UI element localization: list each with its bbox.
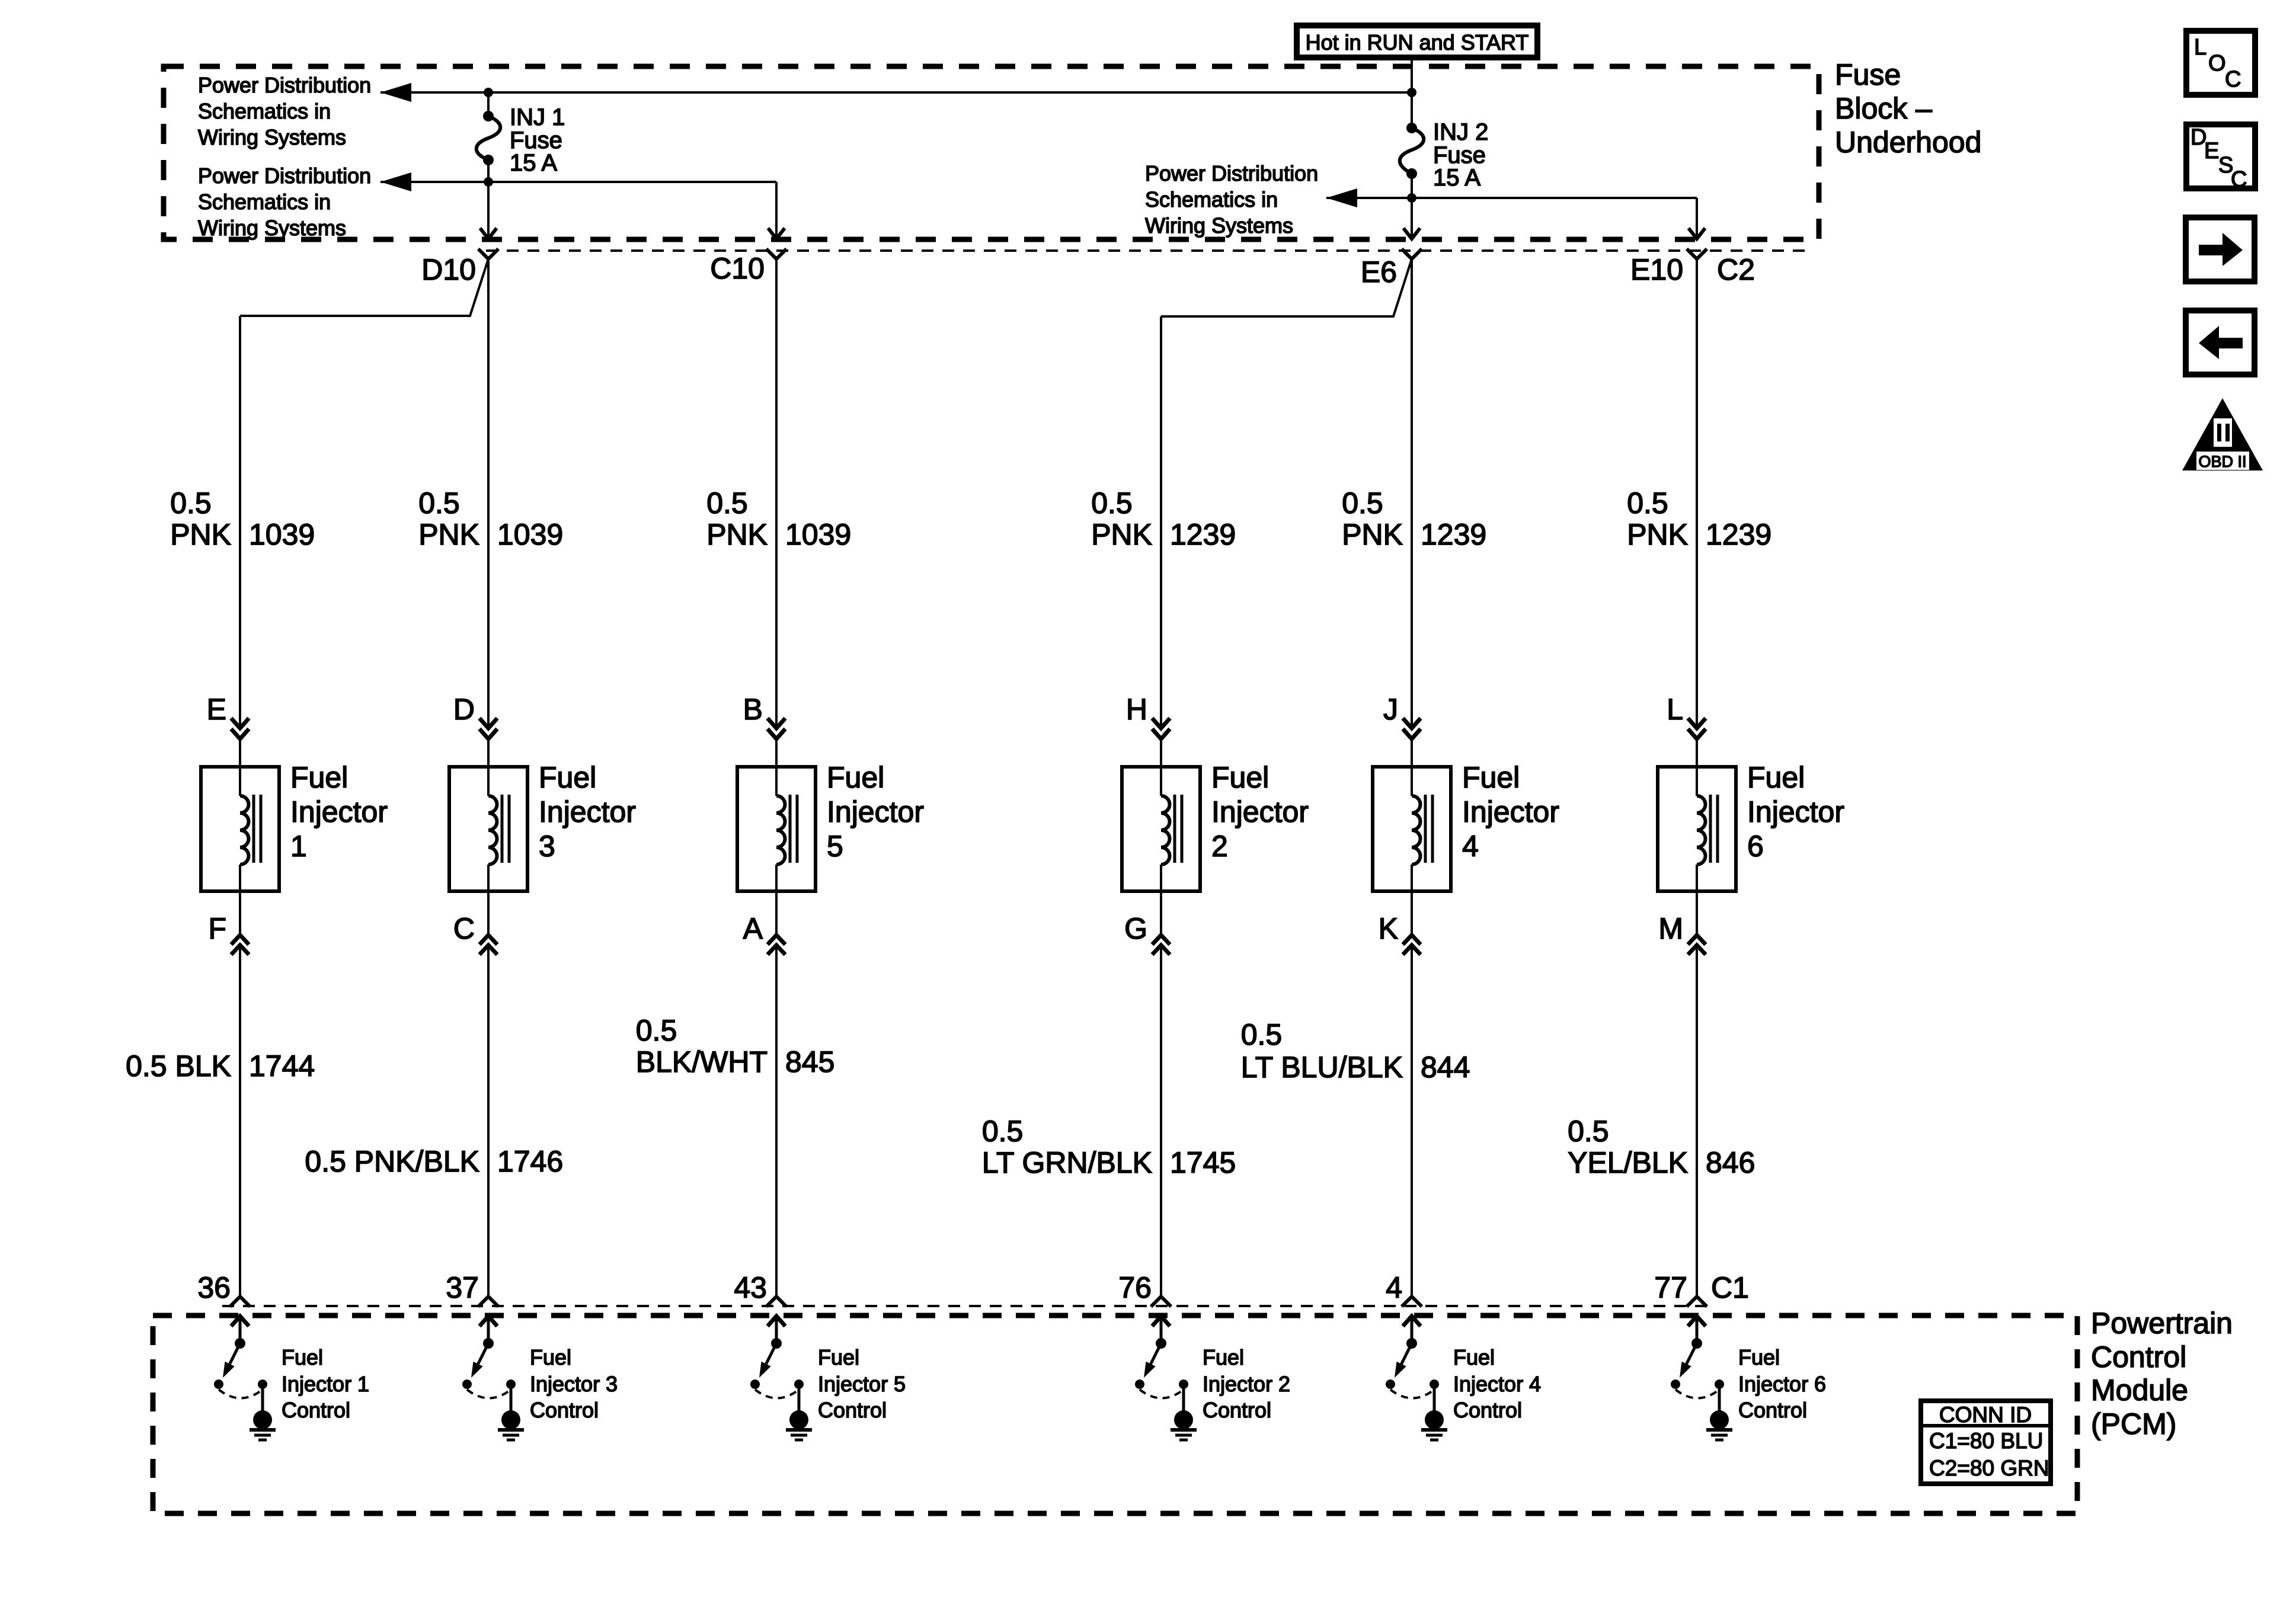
svg-text:Injector: Injector — [539, 795, 636, 828]
connector chevrons at pin H — [1152, 718, 1170, 739]
svg-text:Injector: Injector — [827, 795, 924, 828]
connector terminal PCM pin 36 — [230, 1297, 250, 1307]
svg-text:E: E — [2204, 139, 2219, 164]
svg-text:Fuel: Fuel — [290, 761, 348, 794]
pin B label — [743, 693, 763, 726]
svg-text:Fuel: Fuel — [1747, 761, 1805, 794]
wire pin J to injector — [1411, 739, 1413, 767]
fuel injector 6 (solenoid) — [1658, 767, 1736, 891]
svg-text:Underhood: Underhood — [1835, 126, 1981, 159]
connector chevrons at pin M — [1688, 935, 1706, 955]
svg-text:0.5: 0.5 — [982, 1115, 1024, 1148]
ground (driver 2) — [1171, 1410, 1197, 1440]
label 0.5 PNK 1239 — [1091, 486, 1236, 551]
wire pin K to PCM pin 4 — [1411, 945, 1413, 1297]
title box "Hot in RUN and START" — [1297, 25, 1537, 57]
svg-text:Control: Control — [1203, 1398, 1271, 1422]
svg-text:E6: E6 — [1361, 255, 1397, 289]
label 0.5 BLK/WHT 845 — [636, 1014, 835, 1078]
svg-text:C: C — [2231, 167, 2247, 192]
svg-text:PNK: PNK — [706, 518, 768, 551]
arrow to Power Distribution (left 2) — [380, 172, 411, 191]
connector chevrons at pin A — [768, 935, 785, 955]
svg-text:37: 37 — [446, 1271, 479, 1304]
icon left-arrow box — [2186, 311, 2255, 375]
wire pin E to injector — [239, 739, 241, 767]
label Fuse Block - Underhood — [1835, 58, 1981, 159]
connector terminal D10 — [478, 249, 498, 259]
svg-text:Injector 6: Injector 6 — [1738, 1372, 1826, 1396]
svg-text:0.5 PNK/BLK: 0.5 PNK/BLK — [305, 1145, 479, 1178]
svg-text:36: 36 — [197, 1271, 231, 1304]
label Fuel Injector 1 — [290, 761, 388, 863]
label C10 — [710, 252, 765, 285]
svg-text:B: B — [743, 693, 763, 726]
wire pin H to injector — [1160, 739, 1162, 767]
wire injector 5 low side — [775, 891, 778, 935]
svg-text:K: K — [1379, 912, 1398, 945]
svg-text:Power Distribution: Power Distribution — [1145, 161, 1318, 185]
label INJ 2 Fuse 15 A — [1433, 119, 1488, 191]
connector chevrons at pin C — [479, 935, 497, 955]
fuel injector 5 (solenoid) — [737, 767, 816, 891]
label 0.5 PNK 1039 — [706, 486, 851, 551]
svg-text:6: 6 — [1747, 830, 1764, 863]
node junction fuse1 bottom — [484, 177, 493, 187]
svg-text:Injector 1: Injector 1 — [282, 1372, 369, 1396]
pin H label — [1126, 693, 1147, 726]
svg-text:D10: D10 — [421, 253, 476, 286]
wire second bus left (fuse1 output) — [380, 181, 776, 183]
svg-text:15 A: 15 A — [510, 150, 557, 176]
label Powertrain Control Module (PCM) — [2091, 1307, 2233, 1441]
label Fuel Injector 3 — [539, 761, 636, 863]
svg-text:3: 3 — [539, 830, 555, 863]
svg-text:Fuel: Fuel — [1203, 1345, 1244, 1369]
svg-text:PNK: PNK — [1342, 518, 1403, 551]
connector chevrons at pin F — [231, 935, 249, 955]
fuel injector 3 (solenoid) — [449, 767, 527, 891]
svg-text:Schematics in: Schematics in — [198, 190, 331, 214]
label Power Distribution Schematics in Wiring Systems (1) — [198, 73, 371, 149]
svg-text:G: G — [1124, 912, 1147, 945]
svg-text:Hot in RUN and START: Hot in RUN and START — [1306, 30, 1529, 55]
PCM pin number 36 — [197, 1271, 231, 1304]
svg-text:77: 77 — [1654, 1271, 1687, 1304]
svg-text:Fuse: Fuse — [1835, 58, 1901, 91]
svg-text:1: 1 — [290, 830, 307, 863]
wire pin B to injector — [775, 739, 778, 767]
connector terminal E10 — [1687, 249, 1707, 259]
svg-text:Fuel: Fuel — [1211, 761, 1269, 794]
label C2 — [1717, 253, 1755, 286]
node junction hot feed — [1407, 88, 1416, 97]
connector chevrons at pin K — [1403, 935, 1421, 955]
wire injector 1 low side — [239, 891, 241, 935]
svg-text:J: J — [1383, 693, 1398, 726]
label Fuel Injector 3 Control — [530, 1345, 618, 1422]
svg-text:Wiring Systems: Wiring Systems — [1145, 213, 1293, 238]
icon right-arrow box — [2186, 217, 2255, 281]
label INJ 1 Fuse 15 A — [510, 104, 565, 176]
svg-text:4: 4 — [1386, 1271, 1402, 1304]
wire pin G to PCM pin 76 — [1160, 945, 1162, 1297]
arrowhead into connector D10 — [480, 228, 497, 239]
svg-text:2: 2 — [1211, 830, 1228, 863]
svg-text:C1: C1 — [1711, 1271, 1749, 1304]
svg-text:Module: Module — [2091, 1374, 2188, 1407]
svg-text:Injector 2: Injector 2 — [1203, 1372, 1290, 1396]
svg-text:0.5: 0.5 — [636, 1014, 677, 1047]
svg-text:0.5: 0.5 — [1342, 486, 1383, 520]
label Fuel Injector 6 Control — [1738, 1345, 1826, 1422]
wire circuit 1239 down to injector 4 — [1411, 259, 1413, 728]
svg-text:L: L — [2194, 35, 2207, 60]
svg-text:1239: 1239 — [1421, 518, 1486, 551]
label 0.5 LT GRN/BLK 1745 — [982, 1115, 1236, 1179]
svg-text:Fuel: Fuel — [1453, 1345, 1495, 1369]
svg-text:Injector 4: Injector 4 — [1453, 1372, 1541, 1396]
connector terminal PCM pin 4 — [1402, 1297, 1422, 1307]
svg-text:Schematics in: Schematics in — [1145, 187, 1278, 212]
label Fuel Injector 2 — [1211, 761, 1309, 863]
driver switch for fuel injector 3 — [462, 1316, 516, 1411]
label E10 — [1630, 253, 1683, 286]
svg-text:1039: 1039 — [497, 518, 563, 551]
label C1 (PCM connector) — [1711, 1271, 1749, 1304]
wire jog from D10 to injector 1 branch — [240, 259, 488, 316]
svg-text:845: 845 — [785, 1045, 834, 1078]
wire from Hot in RUN feed down to bus — [1411, 57, 1413, 92]
wire second bus right (fuse2 output) — [1326, 197, 1697, 199]
svg-text:1745: 1745 — [1170, 1146, 1236, 1179]
wire pin M to PCM pin 77 — [1696, 945, 1698, 1297]
ground (driver 3) — [498, 1410, 524, 1440]
svg-text:1744: 1744 — [249, 1049, 315, 1083]
label D10 — [421, 253, 476, 286]
label Power Distribution Schematics in Wiring Systems (2) — [198, 164, 371, 240]
wire injector 3 low side — [487, 891, 490, 935]
PCM dashed enclosure — [153, 1315, 2077, 1513]
wire drop to C10 — [775, 182, 778, 239]
wire circuit 1039 down to injector 5 — [775, 259, 778, 728]
driver switch for fuel injector 5 — [750, 1316, 804, 1411]
svg-text:0.5: 0.5 — [1241, 1018, 1283, 1051]
svg-text:E: E — [207, 693, 226, 726]
svg-text:F: F — [208, 912, 226, 945]
svg-text:Fuel: Fuel — [1462, 761, 1520, 794]
svg-text:15 A: 15 A — [1433, 165, 1480, 191]
PCM pin number 43 — [734, 1271, 767, 1304]
PCM pin number 77 — [1654, 1271, 1687, 1304]
connector terminal PCM pin 37 — [478, 1297, 498, 1307]
svg-text:PNK: PNK — [1091, 518, 1152, 551]
connector interface dashed line (PCM) — [222, 1305, 1710, 1307]
driver switch for fuel injector 4 — [1386, 1316, 1439, 1411]
svg-text:PNK: PNK — [1627, 518, 1688, 551]
label Fuel Injector 1 Control — [282, 1345, 369, 1422]
svg-text:INJ 1: INJ 1 — [510, 104, 565, 130]
PCM pin number 4 — [1386, 1271, 1402, 1304]
pin C label — [453, 912, 475, 945]
svg-text:Injector 5: Injector 5 — [818, 1372, 906, 1396]
icon OBD II triangle — [2182, 398, 2263, 470]
label 0.5 PNK 1039 — [170, 486, 315, 551]
icon LOC box — [2186, 31, 2255, 95]
fuse INJ 1 15 A — [477, 92, 501, 182]
svg-text:1039: 1039 — [249, 518, 315, 551]
label 0.5 PNK 1239 — [1627, 486, 1771, 551]
connector terminal PCM pin 76 — [1151, 1297, 1171, 1307]
fuel injector 1 (solenoid) — [201, 767, 279, 891]
svg-text:0.5: 0.5 — [1627, 486, 1668, 520]
connector chevrons at pin G — [1152, 935, 1170, 955]
ground (driver 5) — [786, 1410, 812, 1440]
node junction fuse2 bottom — [1407, 193, 1416, 203]
label 0.5 PNK 1039 — [418, 486, 563, 551]
svg-text:0.5 BLK: 0.5 BLK — [126, 1049, 231, 1083]
wire top bus B+ — [380, 91, 1412, 94]
label 0.5 BLK 1744 — [126, 1049, 315, 1083]
svg-text:1239: 1239 — [1170, 518, 1236, 551]
wire circuit 1239 down to injector 6 — [1696, 259, 1698, 728]
svg-text:Injector 3: Injector 3 — [530, 1372, 618, 1396]
svg-text:Control: Control — [818, 1398, 887, 1422]
connector chevrons at pin L — [1688, 718, 1706, 739]
svg-text:Control: Control — [530, 1398, 599, 1422]
label Fuel Injector 5 Control — [818, 1345, 906, 1422]
svg-text:C: C — [2225, 67, 2241, 92]
wire pin D to injector — [487, 739, 490, 767]
svg-text:C10: C10 — [710, 252, 765, 285]
arrowhead into connector E10 — [1689, 228, 1705, 239]
pin L label — [1667, 693, 1683, 726]
label 0.5 PNK/BLK 1746 — [305, 1145, 563, 1178]
svg-text:43: 43 — [734, 1271, 767, 1304]
svg-text:Fuel: Fuel — [539, 761, 596, 794]
svg-text:INJ 2: INJ 2 — [1433, 119, 1488, 145]
svg-text:(PCM): (PCM) — [2091, 1407, 2176, 1441]
connector terminal PCM pin 43 — [766, 1297, 786, 1307]
svg-text:0.5: 0.5 — [706, 486, 748, 520]
svg-text:LT GRN/BLK: LT GRN/BLK — [982, 1146, 1152, 1179]
ground (driver 6) — [1706, 1410, 1732, 1440]
svg-text:C2=80 GRN: C2=80 GRN — [1929, 1456, 2049, 1480]
wire circuit 1039 down to injector 3 — [487, 259, 490, 728]
pin A label — [743, 912, 763, 945]
wire jog from E6 to injector 2 branch — [1161, 259, 1412, 316]
PCM pin number 76 — [1118, 1271, 1152, 1304]
arrowhead into connector C10 — [768, 228, 785, 239]
pin K label — [1379, 912, 1398, 945]
CONN ID table — [1921, 1401, 2051, 1484]
wire circuit 1039 down to injector 1 — [239, 316, 241, 728]
connector terminal C10 — [766, 249, 786, 259]
svg-text:YEL/BLK: YEL/BLK — [1568, 1146, 1688, 1179]
svg-text:Injector: Injector — [1462, 795, 1559, 828]
svg-text:Injector: Injector — [290, 795, 388, 828]
svg-text:Control: Control — [1738, 1398, 1807, 1422]
label Fuel Injector 4 — [1462, 761, 1559, 863]
fuel injector 4 (solenoid) — [1373, 767, 1451, 891]
connector chevrons at pin E — [231, 718, 249, 739]
svg-text:Control: Control — [2091, 1340, 2186, 1374]
svg-text:CONN ID: CONN ID — [1939, 1403, 2032, 1427]
wire injector 2 low side — [1160, 891, 1162, 935]
icon DESC box — [2186, 124, 2255, 192]
driver switch for fuel injector 6 — [1671, 1316, 1724, 1411]
pin F label — [208, 912, 226, 945]
svg-text:H: H — [1126, 693, 1147, 726]
wire drop to E6 — [1411, 198, 1413, 239]
svg-text:BLK/WHT: BLK/WHT — [636, 1045, 768, 1078]
svg-text:PNK: PNK — [170, 518, 231, 551]
label Fuel Injector 6 — [1747, 761, 1844, 863]
svg-text:Wiring Systems: Wiring Systems — [198, 125, 346, 149]
svg-text:PNK: PNK — [418, 518, 479, 551]
connector terminal E6 — [1402, 249, 1422, 259]
ground (driver 1) — [250, 1410, 276, 1440]
connector chevrons at pin J — [1403, 718, 1421, 739]
svg-text:Block –: Block – — [1835, 92, 1932, 125]
svg-text:Fuel: Fuel — [1738, 1345, 1780, 1369]
pin G label — [1124, 912, 1147, 945]
svg-text:A: A — [743, 912, 763, 945]
connector chevrons at pin B — [768, 718, 785, 739]
svg-text:Control: Control — [282, 1398, 350, 1422]
svg-text:L: L — [1667, 693, 1683, 726]
svg-text:D: D — [453, 693, 475, 726]
label 0.5 LT BLU/BLK 844 — [1241, 1018, 1470, 1084]
arrowhead into connector E6 — [1403, 228, 1420, 239]
arrow to Power Distribution (top left) — [380, 83, 411, 102]
svg-text:5: 5 — [827, 830, 843, 863]
svg-text:Wiring Systems: Wiring Systems — [198, 216, 346, 240]
wire pin A to PCM pin 43 — [775, 945, 778, 1297]
label Fuel Injector 2 Control — [1203, 1345, 1290, 1422]
svg-text:Fuel: Fuel — [818, 1345, 859, 1369]
svg-text:OBD II: OBD II — [2198, 453, 2246, 470]
svg-text:1039: 1039 — [785, 518, 851, 551]
connector terminal PCM pin 77 — [1687, 1297, 1707, 1307]
wire drop to D10 — [487, 182, 490, 239]
svg-text:1239: 1239 — [1706, 518, 1771, 551]
svg-text:0.5: 0.5 — [170, 486, 212, 520]
wire drop to E10 — [1696, 198, 1698, 239]
pin J label — [1383, 693, 1398, 726]
svg-text:Power Distribution: Power Distribution — [198, 73, 371, 97]
svg-text:Control: Control — [1453, 1398, 1522, 1422]
PCM pin number 37 — [446, 1271, 479, 1304]
wire pin L to injector — [1696, 739, 1698, 767]
wire injector 4 low side — [1411, 891, 1413, 935]
svg-text:M: M — [1658, 912, 1683, 945]
svg-text:Fuel: Fuel — [282, 1345, 323, 1369]
svg-text:0.5: 0.5 — [1568, 1115, 1609, 1148]
svg-text:Injector: Injector — [1747, 795, 1844, 828]
wire circuit 1239 down to injector 2 — [1160, 316, 1162, 728]
fuse block dashed enclosure — [164, 66, 1819, 239]
svg-text:0.5: 0.5 — [418, 486, 460, 520]
arrow to Power Distribution (middle) — [1326, 188, 1357, 207]
svg-text:Fuel: Fuel — [827, 761, 884, 794]
label Fuel Injector 5 — [827, 761, 924, 863]
svg-text:846: 846 — [1706, 1146, 1755, 1179]
svg-text:Powertrain: Powertrain — [2091, 1307, 2233, 1340]
svg-text:Injector: Injector — [1211, 795, 1309, 828]
svg-text:C2: C2 — [1717, 253, 1755, 286]
node junction fuse1 top — [484, 88, 493, 97]
pin E label — [207, 693, 226, 726]
svg-text:C: C — [453, 912, 475, 945]
svg-text:LT BLU/BLK: LT BLU/BLK — [1241, 1051, 1403, 1084]
label 0.5 PNK 1239 — [1342, 486, 1486, 551]
svg-text:76: 76 — [1118, 1271, 1152, 1304]
label Power Distribution Schematics in Wiring Systems (3) — [1145, 161, 1318, 238]
label 0.5 YEL/BLK 846 — [1568, 1115, 1755, 1179]
wire pin F to PCM pin 36 — [239, 945, 241, 1297]
label Fuel Injector 4 Control — [1453, 1345, 1541, 1422]
wire injector 6 low side — [1696, 891, 1698, 935]
ground (driver 4) — [1421, 1410, 1447, 1440]
svg-text:O: O — [2208, 51, 2226, 76]
pin M label — [1658, 912, 1683, 945]
svg-text:Fuel: Fuel — [530, 1345, 571, 1369]
svg-text:E10: E10 — [1630, 253, 1683, 286]
svg-text:C1=80 BLU: C1=80 BLU — [1929, 1429, 2043, 1453]
svg-text:1746: 1746 — [497, 1145, 563, 1178]
fuel injector 2 (solenoid) — [1122, 767, 1200, 891]
driver switch for fuel injector 1 — [214, 1316, 267, 1411]
pin D label — [453, 693, 475, 726]
svg-text:844: 844 — [1421, 1051, 1470, 1084]
connector chevrons at pin D — [479, 718, 497, 739]
label E6 — [1361, 255, 1397, 289]
svg-text:Power Distribution: Power Distribution — [198, 164, 371, 188]
fuse INJ 2 15 A — [1400, 92, 1424, 198]
connector interface dashed line (fuse block) — [486, 249, 1808, 252]
driver switch for fuel injector 2 — [1135, 1316, 1188, 1411]
svg-text:0.5: 0.5 — [1091, 486, 1133, 520]
svg-text:4: 4 — [1462, 830, 1479, 863]
svg-text:Schematics in: Schematics in — [198, 99, 331, 123]
wire pin C to PCM pin 37 — [487, 945, 490, 1297]
